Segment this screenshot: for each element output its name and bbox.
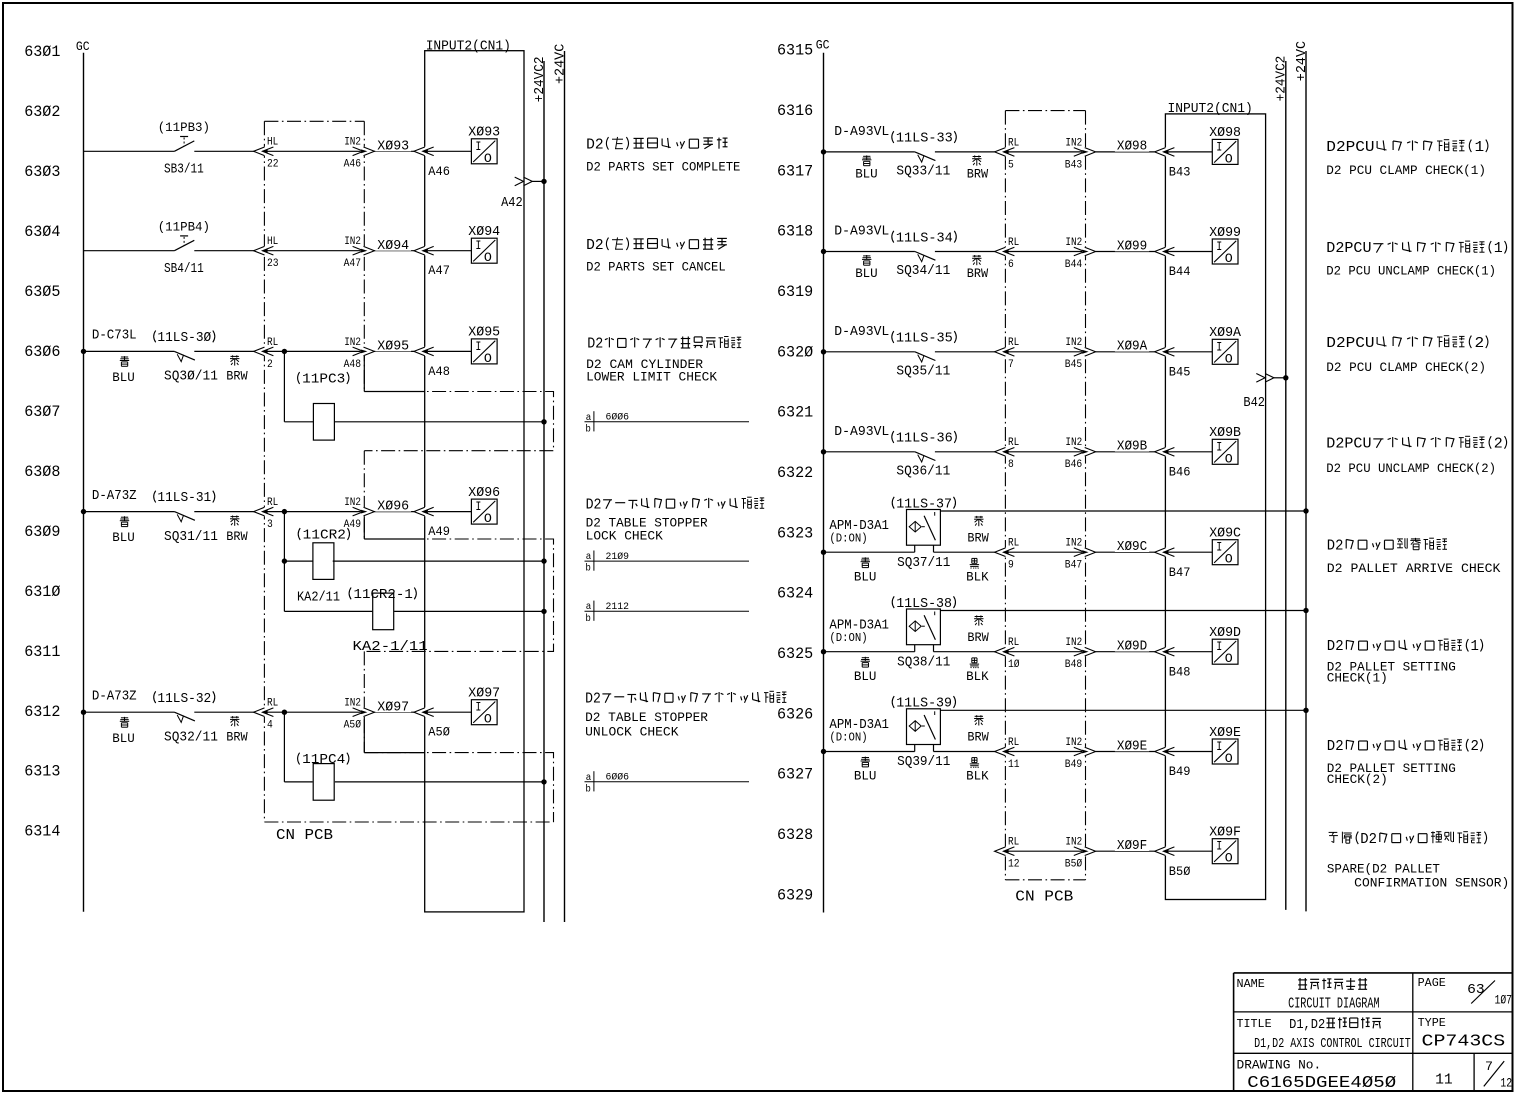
net stub a/b 2109 bbox=[585, 560, 750, 562]
svg-text:D2 PARTS SET COMPLETE: D2 PARTS SET COMPLETE bbox=[586, 161, 740, 175]
wire color labels BLU row 6306 bbox=[120, 356, 129, 366]
wire color BLU at SQ39/11 bbox=[861, 757, 870, 767]
connector RL pin 7 bbox=[1004, 347, 1007, 356]
I/O module X09D bbox=[1212, 639, 1238, 664]
svg-text:B45: B45 bbox=[1169, 365, 1191, 379]
svg-text:CHECK(1): CHECK(1) bbox=[1327, 672, 1388, 686]
svg-text:D-C73L: D-C73L bbox=[92, 329, 137, 344]
junction dot GC at SQ36/11 row bbox=[821, 449, 826, 454]
wire row 6304 from GC to pushbutton SB4 bbox=[84, 250, 175, 252]
connector RL pin 10 bbox=[1004, 647, 1007, 656]
svg-text:XØ93: XØ93 bbox=[377, 139, 409, 154]
connector at INPUT2 edge A47 bbox=[423, 246, 426, 255]
connector IN2 pin A49 bbox=[363, 507, 366, 516]
svg-text:A5Ø: A5Ø bbox=[344, 720, 362, 732]
svg-text:NAME: NAME bbox=[1237, 978, 1265, 991]
connector at INPUT2 edge A50 bbox=[423, 708, 426, 717]
wire coil 11PC3 to +24VC2 bbox=[334, 421, 544, 423]
coil 11CR2 KA2/11 bbox=[313, 543, 334, 580]
wire GC bus left bbox=[83, 53, 85, 912]
svg-text:D2: D2 bbox=[1327, 739, 1344, 755]
svg-text:D2 PCU UNCLAMP CHECK(1): D2 PCU UNCLAMP CHECK(1) bbox=[1326, 265, 1496, 279]
svg-text:RL: RL bbox=[267, 698, 278, 710]
svg-text:b: b bbox=[585, 423, 591, 435]
net stub a/b 6006 row 6307 bbox=[585, 421, 750, 423]
svg-text:O: O bbox=[1225, 552, 1233, 567]
wire coil 11CR2 to +24VC2 bbox=[333, 560, 544, 562]
I/O module X095 bbox=[471, 339, 497, 364]
svg-text:CP743CS: CP743CS bbox=[1422, 1032, 1506, 1051]
wire HL to IN2 row2 bbox=[267, 250, 361, 252]
I/O module X094 bbox=[471, 238, 497, 263]
svg-text:CONFIRMATION SENSOR): CONFIRMATION SENSOR) bbox=[1354, 877, 1509, 891]
junction dot GC at SQ38/11 row bbox=[821, 649, 826, 654]
wire IN2 to INPUT2 edge, net X09A bbox=[1096, 351, 1155, 353]
svg-text:63Ø4: 63Ø4 bbox=[24, 223, 60, 241]
wire sensor SQ39/11 output to connector RL bbox=[934, 751, 995, 753]
wire row from GC to sensor SQ39/11 bbox=[824, 751, 915, 753]
svg-text:B47: B47 bbox=[1065, 560, 1082, 572]
wire IN2 to INPUT2 edge, net X098 bbox=[1096, 151, 1155, 153]
svg-text:D2: D2 bbox=[1360, 832, 1377, 848]
svg-text:6: 6 bbox=[1008, 259, 1014, 271]
svg-text:XØ9F: XØ9F bbox=[1117, 839, 1147, 854]
junction dot GC at SQ33/11 row bbox=[821, 149, 826, 154]
svg-text:RL: RL bbox=[1008, 538, 1019, 550]
wire color BRW at SQ38/11 bbox=[974, 615, 983, 625]
connector at INPUT2 edge B43 bbox=[1164, 147, 1167, 156]
wire to coil 11PC4 bbox=[284, 781, 312, 783]
svg-text:IN2: IN2 bbox=[1065, 538, 1082, 550]
svg-text:B5Ø: B5Ø bbox=[1169, 865, 1191, 879]
svg-text:XØ96: XØ96 bbox=[377, 500, 409, 515]
svg-text:A49: A49 bbox=[428, 525, 450, 539]
wire color BRW at SQ39/11 bbox=[974, 715, 983, 725]
svg-text:IN2: IN2 bbox=[344, 137, 361, 149]
svg-text:GC: GC bbox=[76, 39, 90, 54]
svg-text:6ØØ6: 6ØØ6 bbox=[606, 772, 630, 784]
svg-text:O: O bbox=[1225, 351, 1233, 366]
wire RL to IN2 X099 bbox=[1008, 251, 1082, 253]
wire color labels BRW row 6312 bbox=[230, 716, 239, 726]
connector IN2 pin B44 bbox=[1084, 247, 1087, 256]
wire RL to IN2 X098 bbox=[1008, 151, 1082, 153]
svg-text:BLK: BLK bbox=[966, 769, 989, 784]
svg-text:SQ31/11: SQ31/11 bbox=[164, 530, 218, 545]
I/O module X097 bbox=[471, 700, 497, 725]
svg-text:I: I bbox=[475, 499, 481, 514]
wire row from GC to sensor SQ37/11 bbox=[824, 551, 915, 553]
I/O module X09C bbox=[1212, 540, 1238, 565]
dash-dot bump around 11CR2 wires bbox=[364, 539, 553, 651]
limit switch SQ34/11 (11LS-34) D-A93VL bbox=[915, 252, 936, 261]
svg-text:11CR2: 11CR2 bbox=[303, 529, 346, 544]
wire RL to IN2 X09F bbox=[1008, 850, 1082, 852]
svg-text:INPUT2(CN1): INPUT2(CN1) bbox=[1168, 101, 1253, 117]
svg-text:63Ø3: 63Ø3 bbox=[24, 163, 60, 181]
svg-text:BLU: BLU bbox=[855, 266, 878, 281]
svg-text:XØ95: XØ95 bbox=[468, 326, 500, 341]
connector IN2 pin A46 bbox=[363, 147, 366, 156]
svg-text:D-A93VL: D-A93VL bbox=[834, 225, 889, 240]
svg-text:+24VC: +24VC bbox=[1295, 41, 1310, 81]
svg-text:D2: D2 bbox=[586, 238, 604, 254]
svg-text:O: O bbox=[484, 351, 492, 366]
svg-text:IN2: IN2 bbox=[344, 698, 361, 710]
svg-text:B46: B46 bbox=[1065, 459, 1082, 471]
svg-text:XØ9B: XØ9B bbox=[1209, 426, 1241, 441]
wire into I/O X098 bbox=[1169, 151, 1213, 153]
svg-text:RL: RL bbox=[1008, 137, 1019, 149]
svg-text:IN2: IN2 bbox=[1065, 137, 1082, 149]
wire row from GC to limit switch SQ35/11 bbox=[824, 351, 915, 353]
svg-text:A46: A46 bbox=[344, 159, 361, 171]
svg-text:D-A93VL: D-A93VL bbox=[834, 425, 889, 440]
title block name JP: circuit diagram bbox=[1298, 978, 1307, 989]
wire SQ35/11 to connector RL bbox=[935, 351, 995, 353]
svg-text:6323: 6323 bbox=[777, 524, 813, 542]
coil 11CR2-1 KA2-1/11 bbox=[373, 593, 394, 630]
wire sensor SQ38/11 output to connector RL bbox=[934, 651, 995, 653]
wire into I/O X09B bbox=[1169, 451, 1213, 453]
svg-text:1: 1 bbox=[1471, 639, 1479, 655]
connector RL pin 9 bbox=[1004, 548, 1007, 557]
junction dot GC row 6312 bbox=[81, 710, 86, 715]
dash-dot bump around 11PC4 wire and CN PCB bottom edge bbox=[364, 753, 553, 822]
svg-text:6316: 6316 bbox=[777, 102, 813, 120]
wire RL to IN2 row3 with branch junction bbox=[267, 350, 361, 352]
junction dot +24VC2 at 11PC3 bbox=[541, 419, 546, 424]
svg-text:BLK: BLK bbox=[966, 669, 989, 684]
svg-text:11LS-38: 11LS-38 bbox=[896, 597, 952, 612]
svg-text:TYPE: TYPE bbox=[1418, 1017, 1446, 1030]
solid corner segments joining rungs to dash-dot bumps bbox=[363, 351, 365, 391]
svg-text:11LS-34: 11LS-34 bbox=[896, 231, 953, 246]
svg-text:11PC4: 11PC4 bbox=[302, 753, 345, 768]
wire color labels BLU at SQ34/11 bbox=[862, 255, 871, 265]
svg-text:KA2/11: KA2/11 bbox=[297, 590, 340, 605]
proximity sensor SQ37/11 (11LS-37) APM-D3A1 bbox=[907, 510, 941, 546]
svg-text:D-A93VL: D-A93VL bbox=[834, 325, 889, 340]
wire GC bus right bbox=[823, 53, 825, 913]
svg-text:IN2: IN2 bbox=[1065, 637, 1082, 649]
svg-text:6317: 6317 bbox=[777, 162, 813, 180]
svg-text:SQ36/11: SQ36/11 bbox=[896, 465, 950, 480]
wire RL to IN2 X09D bbox=[1008, 651, 1082, 653]
wire color BRW at SQ37/11 bbox=[974, 516, 983, 526]
svg-text:B44: B44 bbox=[1169, 265, 1191, 279]
svg-text:B5Ø: B5Ø bbox=[1065, 859, 1083, 871]
wire SB3 to connector HL bbox=[194, 150, 254, 152]
wire into I/O X09A bbox=[1169, 351, 1213, 353]
connector IN2 pin A50 bbox=[363, 708, 366, 717]
svg-text:GC: GC bbox=[816, 38, 830, 53]
svg-text:D2 TABLE STOPPER: D2 TABLE STOPPER bbox=[586, 516, 708, 530]
connector RL pin 8 bbox=[1004, 447, 1007, 456]
svg-text:BRW: BRW bbox=[967, 730, 989, 745]
svg-text:7: 7 bbox=[1485, 1059, 1493, 1074]
junction node branch 11PC3 bbox=[282, 349, 287, 354]
connector IN2 pin B48 bbox=[1084, 647, 1087, 656]
svg-text:D2PCU: D2PCU bbox=[1326, 241, 1371, 257]
svg-text:I: I bbox=[1216, 739, 1222, 754]
svg-text:b: b bbox=[585, 613, 591, 625]
junction dot +24VC at SQ39/11 bbox=[1303, 708, 1308, 713]
svg-text:BLU: BLU bbox=[112, 731, 135, 746]
wire row 6312 from GC to limit switch SQ32 bbox=[84, 711, 175, 713]
wire row 6306 from GC to limit switch SQ30 bbox=[84, 350, 175, 352]
wire row from GC to sensor SQ38/11 bbox=[824, 651, 915, 653]
svg-text:INPUT2(CN1): INPUT2(CN1) bbox=[426, 39, 511, 55]
svg-text:11CR2-1: 11CR2-1 bbox=[354, 588, 413, 603]
wire SQ31 to connector RL bbox=[194, 511, 254, 513]
svg-text:UNLOCK CHECK: UNLOCK CHECK bbox=[585, 726, 679, 740]
wire RL to IN2 X09A bbox=[1008, 351, 1082, 353]
junction dot GC at SQ37/11 row bbox=[821, 550, 826, 555]
svg-text:632Ø: 632Ø bbox=[777, 343, 814, 361]
svg-text:63Ø7: 63Ø7 bbox=[24, 403, 60, 421]
svg-text:O: O bbox=[1225, 451, 1233, 466]
junction dot +24VC2 at 11CR2-1 bbox=[541, 609, 546, 614]
svg-text:I: I bbox=[1216, 439, 1222, 454]
svg-text:5: 5 bbox=[1008, 159, 1014, 171]
svg-text:B44: B44 bbox=[1065, 259, 1083, 271]
wire color labels BRW row 6309 bbox=[230, 516, 239, 526]
svg-text:RL: RL bbox=[1008, 237, 1019, 249]
svg-text:+24VC2: +24VC2 bbox=[1274, 56, 1289, 102]
svg-text:63Ø5: 63Ø5 bbox=[24, 283, 60, 301]
svg-text:IN2: IN2 bbox=[1065, 337, 1082, 349]
wire RL to IN2 row4 with branch junction bbox=[267, 511, 361, 513]
I/O module X093 bbox=[471, 139, 497, 164]
svg-text:RL: RL bbox=[1008, 437, 1019, 449]
svg-text:b: b bbox=[585, 563, 591, 575]
svg-text:12: 12 bbox=[1500, 1076, 1512, 1090]
sensor SQ39/11 supply wire to +24VC bbox=[940, 709, 1306, 711]
svg-text:SQ33/11: SQ33/11 bbox=[896, 165, 950, 180]
svg-text:11: 11 bbox=[1008, 759, 1020, 771]
connector IN2 pin A48 bbox=[363, 347, 366, 356]
svg-text:I: I bbox=[1216, 540, 1222, 555]
svg-text:D2: D2 bbox=[585, 691, 601, 707]
svg-text:BRW: BRW bbox=[967, 530, 989, 545]
svg-text:BLU: BLU bbox=[854, 669, 877, 684]
svg-text:2: 2 bbox=[1471, 739, 1479, 755]
svg-text:(11PB3): (11PB3) bbox=[158, 120, 210, 135]
svg-text:O: O bbox=[484, 151, 492, 166]
svg-text:6322: 6322 bbox=[777, 464, 813, 482]
connector at INPUT2 edge B45 bbox=[1164, 347, 1167, 356]
wire IN2 to INPUT2 edge, net X097 bbox=[374, 711, 414, 713]
svg-text:C6165DGEE4Ø5Ø: C6165DGEE4Ø5Ø bbox=[1247, 1074, 1396, 1093]
svg-text:6319: 6319 bbox=[777, 283, 813, 301]
svg-text:IN2: IN2 bbox=[344, 497, 361, 509]
svg-text:8: 8 bbox=[1008, 459, 1014, 471]
svg-text:A47: A47 bbox=[344, 258, 361, 270]
connector RL pin 5 bbox=[1004, 147, 1007, 156]
title block frame bbox=[1234, 972, 1513, 974]
svg-text:XØ94: XØ94 bbox=[468, 225, 500, 240]
spare row X09F bbox=[1004, 847, 1007, 856]
net stub a/b 6006 row 6313 bbox=[585, 781, 750, 783]
svg-text:BRW: BRW bbox=[967, 266, 989, 281]
connector at INPUT2 edge A49 bbox=[423, 507, 426, 516]
svg-text:SQ35/11: SQ35/11 bbox=[896, 365, 950, 380]
wire into I/O X09D bbox=[1169, 651, 1213, 653]
wire IN2 to INPUT2 edge, net X09C bbox=[1096, 551, 1155, 553]
connector B42 to +24VC2 bbox=[1256, 374, 1265, 383]
svg-text:BLU: BLU bbox=[854, 769, 877, 784]
svg-text:+24VC2: +24VC2 bbox=[533, 56, 548, 102]
connector box INPUT2(CN1) left bbox=[425, 51, 524, 912]
svg-text:B46: B46 bbox=[1169, 465, 1191, 479]
svg-text:O: O bbox=[1225, 851, 1233, 866]
junction dot +24VC at SQ37/11 bbox=[1303, 508, 1308, 513]
svg-text:11LS-39: 11LS-39 bbox=[896, 697, 952, 712]
svg-text:XØ97: XØ97 bbox=[377, 700, 409, 715]
connector at INPUT2 edge B48 bbox=[1164, 647, 1167, 656]
svg-text:a: a bbox=[586, 772, 592, 784]
svg-text:PAGE: PAGE bbox=[1418, 977, 1446, 990]
wire RL to IN2 X09B bbox=[1008, 451, 1082, 453]
svg-text:+24VC: +24VC bbox=[553, 44, 568, 84]
svg-text:BRW: BRW bbox=[226, 529, 248, 544]
connector A42 to +24VC2 bbox=[515, 177, 524, 186]
svg-text:6327: 6327 bbox=[777, 766, 813, 784]
svg-text:63Ø2: 63Ø2 bbox=[24, 103, 60, 121]
connector at INPUT2 edge B50 bbox=[1164, 847, 1167, 856]
I/O module X09A bbox=[1212, 339, 1238, 364]
svg-text:O: O bbox=[1225, 751, 1233, 766]
svg-text:I: I bbox=[1216, 239, 1222, 254]
svg-text:IN2: IN2 bbox=[1065, 737, 1082, 749]
I/O module X099 bbox=[1212, 239, 1238, 264]
svg-text:11LS-3Ø: 11LS-3Ø bbox=[157, 331, 211, 346]
wire IN2 to INPUT2 edge, net X094 bbox=[374, 250, 414, 252]
junction dot +24VC at SQ38/11 bbox=[1303, 608, 1308, 613]
svg-text:A46: A46 bbox=[428, 165, 450, 179]
svg-text:BRW: BRW bbox=[967, 630, 989, 645]
svg-text:A47: A47 bbox=[428, 264, 450, 278]
svg-text:XØ9E: XØ9E bbox=[1117, 739, 1147, 754]
wire into I/O X096 bbox=[428, 511, 471, 513]
junction dot branch 11CR2 bbox=[282, 558, 287, 563]
limit switch SQ30/11 (11LS-30) D-C73L bbox=[174, 351, 195, 360]
svg-text:11LS-36: 11LS-36 bbox=[896, 432, 953, 447]
svg-text:RL: RL bbox=[1008, 837, 1019, 849]
wire row 6302 from GC to pushbutton SB3 bbox=[84, 150, 175, 152]
wire IN2 to INPUT2 edge, net X09E bbox=[1096, 751, 1155, 753]
svg-text:A42: A42 bbox=[501, 196, 523, 211]
wire into I/O X09C bbox=[1169, 551, 1213, 553]
wire sensor SQ37/11 output to connector RL bbox=[934, 551, 995, 553]
svg-text:DRAWING No.: DRAWING No. bbox=[1237, 1059, 1322, 1073]
svg-text:6315: 6315 bbox=[777, 42, 813, 60]
connector RL pin 4 bbox=[263, 708, 266, 717]
svg-text:11LS-33: 11LS-33 bbox=[896, 132, 953, 147]
svg-text:23: 23 bbox=[267, 258, 279, 270]
svg-text:6326: 6326 bbox=[777, 705, 813, 723]
wire IN2 to INPUT2 edge, net X09D bbox=[1096, 651, 1155, 653]
svg-text:6328: 6328 bbox=[777, 826, 813, 844]
wire to coil 11CR2-1 bbox=[284, 610, 372, 612]
svg-text:I: I bbox=[1216, 839, 1222, 854]
wire SQ36/11 to connector RL bbox=[935, 451, 995, 453]
connector IN2 pin B50 bbox=[1084, 847, 1087, 856]
svg-text:631Ø: 631Ø bbox=[24, 583, 61, 601]
svg-text:A48: A48 bbox=[428, 365, 450, 379]
connector at INPUT2 edge A46 bbox=[423, 147, 426, 156]
svg-text:D2 PCU CLAMP CHECK(1): D2 PCU CLAMP CHECK(1) bbox=[1326, 164, 1486, 178]
connector at INPUT2 edge B46 bbox=[1164, 447, 1167, 456]
svg-text:CN PCB: CN PCB bbox=[276, 827, 333, 844]
svg-text:6329: 6329 bbox=[777, 886, 813, 904]
svg-text:I: I bbox=[1216, 639, 1222, 654]
wire row 6309 from GC to limit switch SQ31 bbox=[84, 511, 175, 513]
svg-text:LOWER LIMIT CHECK: LOWER LIMIT CHECK bbox=[586, 371, 718, 385]
svg-text:11LS-37: 11LS-37 bbox=[896, 497, 952, 512]
svg-text:(D:ON): (D:ON) bbox=[829, 731, 867, 745]
wire row from GC to limit switch SQ36/11 bbox=[824, 451, 915, 453]
I/O module X09E bbox=[1212, 739, 1238, 764]
svg-text:RL: RL bbox=[267, 337, 278, 349]
svg-text:D1,D2: D1,D2 bbox=[1289, 1017, 1325, 1033]
svg-text:RL: RL bbox=[1008, 637, 1019, 649]
wire color BLU at SQ37/11 bbox=[861, 557, 870, 567]
wire SQ32 to connector RL bbox=[194, 711, 254, 713]
svg-text:D2: D2 bbox=[587, 337, 603, 353]
svg-text:XØ9F: XØ9F bbox=[1209, 826, 1241, 841]
svg-text:IN2: IN2 bbox=[344, 337, 361, 349]
svg-text:D2PCU: D2PCU bbox=[1326, 336, 1374, 352]
svg-text:O: O bbox=[484, 511, 492, 526]
svg-text:63Ø1: 63Ø1 bbox=[24, 43, 60, 61]
svg-text:BLU: BLU bbox=[112, 530, 135, 545]
svg-text:XØ9B: XØ9B bbox=[1117, 440, 1147, 455]
wire color labels BRW at SQ33/11 bbox=[972, 155, 981, 165]
junction node branch 11CR2 bbox=[282, 509, 287, 514]
svg-text:BLU: BLU bbox=[112, 370, 135, 385]
I/O module X098 bbox=[1212, 139, 1238, 164]
svg-text:B48: B48 bbox=[1065, 659, 1082, 671]
svg-text:O: O bbox=[1225, 251, 1233, 266]
svg-text:B42: B42 bbox=[1243, 396, 1265, 411]
svg-text:XØ9E: XØ9E bbox=[1209, 726, 1241, 741]
junction dot GC at SQ34/11 row bbox=[821, 249, 826, 254]
wire color labels BLU row 6312 bbox=[120, 717, 129, 727]
svg-text:6318: 6318 bbox=[777, 223, 813, 241]
svg-text:6313: 6313 bbox=[24, 763, 60, 781]
svg-text:63Ø9: 63Ø9 bbox=[24, 523, 60, 541]
svg-text:CHECK(2): CHECK(2) bbox=[1327, 773, 1388, 787]
svg-text:I: I bbox=[475, 139, 481, 154]
svg-text:I: I bbox=[1216, 339, 1222, 354]
connector HL pin 22 bbox=[263, 147, 266, 156]
I/O module X09B bbox=[1212, 439, 1238, 464]
pushbutton SB3/11 (11PB3) bbox=[174, 141, 194, 151]
right CN PCB dash-dot boundary bbox=[1005, 110, 1085, 112]
svg-text:63: 63 bbox=[1467, 982, 1485, 998]
svg-text:a: a bbox=[586, 601, 592, 613]
wire IN2 to INPUT2 edge, net X09F bbox=[1096, 850, 1155, 852]
svg-text:RL: RL bbox=[1008, 737, 1019, 749]
svg-text:RL: RL bbox=[1008, 337, 1019, 349]
svg-text:XØ9A: XØ9A bbox=[1209, 326, 1242, 341]
svg-text:2: 2 bbox=[1494, 436, 1503, 452]
svg-text:12: 12 bbox=[1008, 859, 1020, 871]
wire to coil 11PC3 bbox=[284, 421, 313, 423]
svg-text:IN2: IN2 bbox=[344, 236, 361, 248]
